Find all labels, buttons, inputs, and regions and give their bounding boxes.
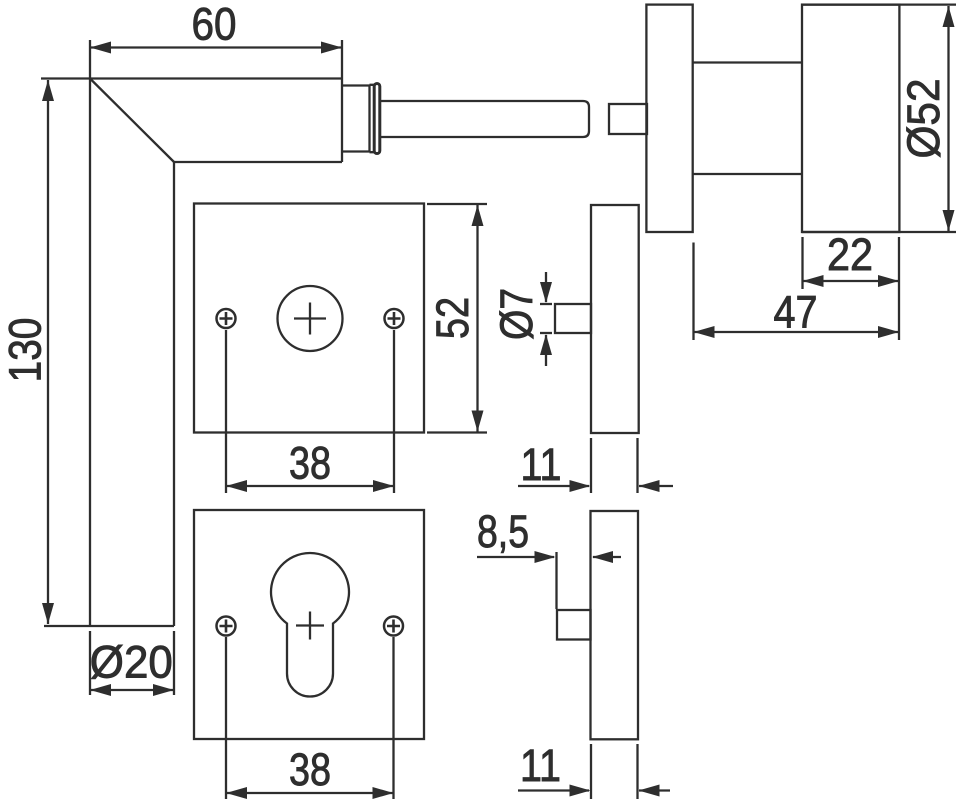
upper plate pin bbox=[555, 304, 591, 333]
dim 8,5 leader vertical bbox=[555, 552, 557, 609]
dim O52 extension bottom bbox=[802, 231, 956, 233]
dim O20 line bbox=[90, 689, 174, 691]
arrow O52 down bbox=[943, 210, 955, 231]
upper right screw bbox=[385, 309, 404, 328]
dim 47 extension left bbox=[692, 243, 694, 341]
lower cross bbox=[296, 612, 324, 640]
euro cylinder keyhole bbox=[271, 553, 349, 696]
dim 130 line bbox=[47, 80, 49, 624]
dim 38 lower line bbox=[226, 792, 394, 794]
dim 38 upper extension left bbox=[225, 330, 227, 493]
upper left screw bbox=[217, 309, 236, 328]
dim 22 line bbox=[803, 280, 900, 282]
knob rose plate (side view) bbox=[646, 5, 692, 232]
lever collar pill flange bbox=[374, 84, 380, 154]
arrow O52 up bbox=[943, 6, 955, 27]
arrow 8,5 right bbox=[535, 551, 556, 563]
arrow 130 down bbox=[42, 603, 54, 624]
dim 8,5 leader horizontal bbox=[477, 556, 554, 558]
arrow 60 left bbox=[90, 42, 111, 54]
dim 38 lower extension right bbox=[392, 637, 394, 799]
lower right screw bbox=[384, 617, 403, 636]
lever head bottom edge bbox=[174, 161, 342, 163]
upper middle plate (side view) bbox=[591, 205, 639, 433]
dim 8,5 inner arrow line bbox=[593, 556, 621, 558]
spindle bbox=[381, 101, 589, 137]
arrow 38l left bbox=[226, 787, 247, 799]
svg-text:52: 52 bbox=[427, 297, 478, 339]
dim O20 extension right bbox=[173, 631, 175, 695]
dim 11 upper extension left bbox=[590, 438, 592, 493]
dim 11 upper extension right bbox=[636, 438, 638, 493]
dim 38 upper extension right bbox=[393, 330, 395, 493]
dim O20 extension left bbox=[89, 631, 91, 695]
svg-text:Ø52: Ø52 bbox=[898, 79, 949, 159]
arrow 130 up bbox=[42, 80, 54, 101]
svg-text:22: 22 bbox=[827, 229, 873, 280]
lever handle head top edge (with 130 extension) bbox=[41, 77, 342, 79]
upper hole cross bbox=[294, 303, 326, 335]
arrow O20 left bbox=[90, 684, 111, 696]
lever collar neck edge bbox=[370, 85, 375, 152]
dim 38 lower extension left bbox=[225, 637, 227, 799]
svg-text:11: 11 bbox=[521, 439, 562, 490]
lever grip inner edge bbox=[173, 162, 175, 626]
arrow 11l left bbox=[639, 785, 660, 797]
dim 22/47 extension right bbox=[898, 237, 900, 340]
arrow 11u right bbox=[570, 480, 591, 492]
svg-text:38: 38 bbox=[289, 744, 331, 795]
lever grip bottom edge (with 130 extension) bbox=[44, 625, 174, 627]
dim 11 upper arrow lines bbox=[518, 485, 673, 487]
upper rose handle hole bbox=[278, 286, 343, 351]
lever head right edge (60 extension above) bbox=[341, 40, 343, 162]
arrow O7 down bbox=[540, 282, 552, 303]
dim O7 tick top bbox=[540, 303, 552, 305]
arrow 11l right bbox=[570, 785, 591, 797]
svg-text:130: 130 bbox=[0, 318, 50, 383]
arrow 47 left bbox=[694, 326, 715, 338]
arrow 22 left bbox=[803, 275, 824, 287]
arrow 38u right bbox=[373, 480, 394, 492]
svg-text:38: 38 bbox=[289, 438, 331, 489]
svg-text:8,5: 8,5 bbox=[477, 506, 529, 557]
dim 11 lower extension right bbox=[636, 744, 638, 799]
knob body bbox=[802, 5, 899, 232]
dim 38 upper line bbox=[226, 485, 394, 487]
dim 52 line bbox=[476, 205, 478, 432]
dim 22 extension left bbox=[801, 237, 803, 289]
upper square rose plate bbox=[194, 204, 424, 433]
arrow O20 right bbox=[153, 684, 174, 696]
svg-text:Ø20: Ø20 bbox=[90, 637, 173, 688]
svg-text:60: 60 bbox=[192, 0, 237, 50]
dim 52 extension bottom bbox=[427, 431, 487, 433]
lower left screw bbox=[217, 617, 236, 636]
svg-text:47: 47 bbox=[774, 287, 818, 338]
dim 11 lower extension left bbox=[590, 744, 592, 799]
svg-text:11: 11 bbox=[520, 740, 561, 791]
knob neck bottom bbox=[693, 173, 802, 175]
arrow 8,5 left bbox=[592, 551, 613, 563]
lower plate pin bbox=[557, 610, 591, 640]
lever handle left edge (60 extension + grip left) bbox=[89, 40, 91, 626]
lower middle plate (side view) bbox=[591, 511, 639, 739]
dim O52 line bbox=[947, 6, 949, 231]
dim 47 line bbox=[694, 331, 900, 333]
lower square rose plate bbox=[194, 510, 424, 739]
arrow 47 right bbox=[878, 326, 899, 338]
dim O52 extension top bbox=[802, 3, 956, 5]
spindle square pin bbox=[609, 104, 647, 134]
arrow 52 down bbox=[472, 411, 484, 432]
dim 11 lower arrow lines bbox=[518, 789, 670, 791]
arrow 38l right bbox=[373, 787, 394, 799]
knob neck top bbox=[693, 61, 802, 63]
dim O7 tick bottom bbox=[540, 332, 552, 334]
dim O7 arrow shafts bbox=[545, 272, 547, 366]
arrow O7 up bbox=[540, 334, 552, 355]
arrow 11u left bbox=[639, 480, 660, 492]
lever neck bottom bbox=[342, 150, 370, 152]
lever head chamfer diagonal bbox=[90, 79, 174, 163]
arrow 60 right bbox=[321, 42, 342, 54]
dim 60 line bbox=[90, 46, 342, 48]
svg-text:Ø7: Ø7 bbox=[491, 288, 542, 340]
arrow 22 right bbox=[878, 275, 899, 287]
arrow 52 up bbox=[472, 205, 484, 226]
arrow 38u left bbox=[226, 480, 247, 492]
lever neck top bbox=[342, 84, 370, 86]
dim 52 extension top bbox=[427, 203, 487, 205]
